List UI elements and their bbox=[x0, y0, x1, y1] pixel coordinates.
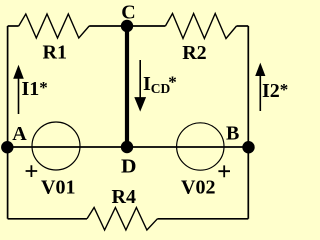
svg-text:I2*: I2* bbox=[262, 80, 288, 102]
node D bbox=[121, 141, 133, 153]
plus sign of V01 bbox=[26, 165, 38, 177]
wire: top lead from R2 to right corner bbox=[237, 25, 249, 27]
current arrow I_CD* (down) bbox=[139, 60, 141, 99]
svg-text:D: D bbox=[121, 155, 137, 177]
wire: top lead into R1 bbox=[8, 25, 19, 27]
current arrow I2* (up) bbox=[259, 74, 261, 111]
svg-text:C: C bbox=[121, 2, 135, 24]
svg-text:V01: V01 bbox=[41, 176, 75, 198]
current arrow I1* (up) bbox=[18, 76, 20, 114]
node C bbox=[121, 20, 133, 32]
node A bbox=[1, 141, 13, 153]
wire: bottom right lead from R4 bbox=[157, 218, 248, 220]
wire: middle horizontal A-D-B bbox=[8, 146, 249, 148]
resistor R4 bbox=[87, 208, 157, 231]
svg-text:R1: R1 bbox=[43, 41, 67, 63]
svg-text:A: A bbox=[12, 123, 27, 145]
svg-text:R4: R4 bbox=[112, 186, 136, 208]
wire: right vertical B-branch bbox=[247, 26, 249, 219]
svg-text:V02: V02 bbox=[181, 176, 215, 198]
svg-text:R2: R2 bbox=[182, 42, 206, 64]
voltage source V02 bbox=[177, 123, 224, 170]
wire: left vertical A-branch bbox=[7, 26, 9, 219]
wire: top middle between R1 and R2 through node C bbox=[89, 25, 165, 27]
svg-text:B: B bbox=[226, 123, 239, 145]
resistor R1 bbox=[19, 14, 90, 38]
voltage source V01 bbox=[32, 122, 80, 170]
wire: thick C-D branch bbox=[125, 26, 129, 147]
wire: bottom left lead to R4 bbox=[8, 218, 87, 220]
svg-text:I1*: I1* bbox=[22, 78, 48, 100]
resistor R2 bbox=[165, 14, 236, 39]
plus sign of V02 bbox=[218, 165, 230, 177]
node B bbox=[242, 141, 254, 153]
